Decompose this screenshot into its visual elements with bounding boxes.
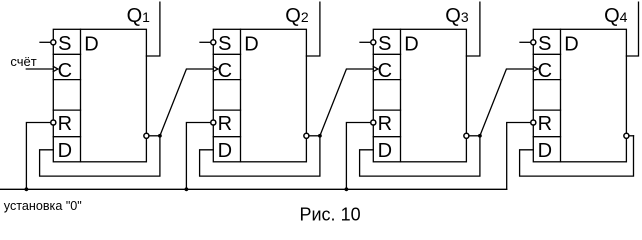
junction dot on reset bus below DD3 xyxy=(345,187,349,191)
svg-text:счёт: счёт xyxy=(10,54,36,69)
flip-flop DD3 inverted output wire xyxy=(469,135,480,137)
flip-flop DD1 Q output wire to top xyxy=(146,2,160,56)
flip-flop DD2 clock edge indicator xyxy=(213,67,218,72)
flip-flop DD1 pin row divider 2 xyxy=(53,79,80,81)
svg-text:R: R xyxy=(538,113,552,135)
flip-flop DD3 S input inversion bubble xyxy=(371,40,376,45)
flip-flop DD4 R input inversion bubble xyxy=(531,120,536,125)
feedback wire from DD4 inverted output to its D input xyxy=(520,136,634,176)
junction dot at flip-flop DD2 inverted output xyxy=(318,134,322,138)
wire from DD2 inverted output to DD3 clock input xyxy=(320,69,373,136)
flip-flop DD1 pin row divider 3 xyxy=(53,109,80,111)
flip-flop DD2 inverted output wire xyxy=(309,135,320,137)
flip-flop DD3 pin row divider 3 xyxy=(373,109,400,111)
flip-flop DD3 pin row divider 2 xyxy=(373,79,400,81)
flip-flop DD1 inverted output bubble xyxy=(144,133,149,138)
flip-flop DD4 pin row divider 2 xyxy=(533,79,560,81)
flip-flop DD4 pin row divider 1 xyxy=(533,53,560,55)
svg-text:S: S xyxy=(378,33,391,55)
feedback wire from DD1 inverted output to its D input xyxy=(40,136,160,176)
svg-text:D: D xyxy=(58,140,72,162)
svg-text:S: S xyxy=(58,33,71,55)
flip-flop DD2 pin row divider 1 xyxy=(213,53,240,55)
flip-flop DD3 box outline xyxy=(373,29,466,162)
svg-text:C: C xyxy=(218,60,232,82)
flip-flop DD4 box outline xyxy=(533,29,626,162)
flip-flop DD2 box outline xyxy=(213,29,306,162)
flip-flop DD1 pin row divider 1 xyxy=(53,53,80,55)
svg-text:C: C xyxy=(58,60,72,82)
svg-text:Q1: Q1 xyxy=(127,5,151,27)
svg-text:Q2: Q2 xyxy=(285,5,309,27)
wire from DD3 inverted output to DD4 clock input xyxy=(480,69,533,136)
flip-flop DD2 pin row divider 4 xyxy=(213,136,240,138)
flip-flop DD4 S input stub wire xyxy=(520,41,531,43)
svg-text:D: D xyxy=(564,33,578,55)
wire from DD2 R input to reset bus xyxy=(186,123,210,190)
flip-flop DD3 pin row divider 1 xyxy=(373,53,400,55)
svg-text:установка "0": установка "0" xyxy=(4,199,82,213)
svg-text:S: S xyxy=(538,33,551,55)
svg-text:R: R xyxy=(218,113,232,135)
wire from DD1 inverted output to DD2 clock input xyxy=(160,69,213,136)
flip-flop DD2 pin row divider 2 xyxy=(213,79,240,81)
flip-flop DD4 pin row divider 3 xyxy=(533,109,560,111)
junction dot on reset bus below DD1 xyxy=(25,187,29,191)
flip-flop DD3 inverted output bubble xyxy=(464,133,469,138)
flip-flop DD1 box outline xyxy=(53,29,146,162)
flip-flop DD4 pin-column divider xyxy=(560,29,562,162)
flip-flop DD3 S input stub wire xyxy=(360,41,371,43)
flip-flop DD3 pin-column divider xyxy=(400,29,402,162)
svg-text:D: D xyxy=(218,140,232,162)
svg-text:R: R xyxy=(58,113,72,135)
flip-flop DD1 inverted output wire xyxy=(149,135,160,137)
junction dot at flip-flop DD1 inverted output xyxy=(158,134,162,138)
junction dot at flip-flop DD3 inverted output xyxy=(478,134,482,138)
flip-flop DD4 pin row divider 4 xyxy=(533,136,560,138)
wire from DD4 R input to reset bus xyxy=(507,123,531,190)
wire from DD1 R input to reset bus xyxy=(26,123,50,190)
svg-text:C: C xyxy=(538,60,552,82)
flip-flop DD1 S input inversion bubble xyxy=(51,40,56,45)
feedback wire from DD3 inverted output to its D input xyxy=(360,136,480,176)
flip-flop DD1 pin row divider 4 xyxy=(53,136,80,138)
svg-text:Q4: Q4 xyxy=(604,5,628,27)
flip-flop DD1 clock edge indicator xyxy=(53,67,58,72)
svg-text:C: C xyxy=(378,60,392,82)
flip-flop DD3 R input inversion bubble xyxy=(371,120,376,125)
flip-flop DD1 S input stub wire xyxy=(40,41,51,43)
svg-text:D: D xyxy=(84,33,98,55)
flip-flop DD2 S input inversion bubble xyxy=(211,40,216,45)
junction dot on reset bus below DD2 xyxy=(185,187,189,191)
flip-flop DD1 R input inversion bubble xyxy=(51,120,56,125)
flip-flop DD3 clock edge indicator xyxy=(373,67,378,72)
flip-flop DD2 inverted output bubble xyxy=(304,133,309,138)
flip-flop DD4 Q output wire to top xyxy=(626,2,638,56)
flip-flop DD1 pin-column divider xyxy=(80,29,82,162)
flip-flop DD4 inverted output bubble xyxy=(624,133,629,138)
flip-flop DD4 clock edge indicator xyxy=(533,67,538,72)
svg-text:S: S xyxy=(218,33,231,55)
flip-flop DD4 inverted output wire xyxy=(629,135,634,137)
svg-text:D: D xyxy=(244,33,258,55)
flip-flop DD2 Q output wire to top xyxy=(306,2,320,56)
svg-text:Рис. 10: Рис. 10 xyxy=(300,205,361,225)
clock input wire (schet) to DD1 C xyxy=(26,68,53,70)
svg-text:D: D xyxy=(404,33,418,55)
svg-text:R: R xyxy=(378,113,392,135)
flip-flop DD2 R input inversion bubble xyxy=(211,120,216,125)
flip-flop DD3 Q output wire to top xyxy=(466,2,480,56)
svg-text:Q3: Q3 xyxy=(445,5,469,27)
feedback wire from DD2 inverted output to its D input xyxy=(200,136,320,176)
reset bus wire xyxy=(0,188,507,190)
svg-text:D: D xyxy=(538,140,552,162)
wire from DD3 R input to reset bus xyxy=(346,123,370,190)
flip-flop DD3 pin row divider 4 xyxy=(373,136,400,138)
flip-flop DD2 S input stub wire xyxy=(200,41,211,43)
svg-text:D: D xyxy=(378,140,392,162)
flip-flop DD2 pin-column divider xyxy=(240,29,242,162)
flip-flop DD2 pin row divider 3 xyxy=(213,109,240,111)
flip-flop DD4 S input inversion bubble xyxy=(531,40,536,45)
